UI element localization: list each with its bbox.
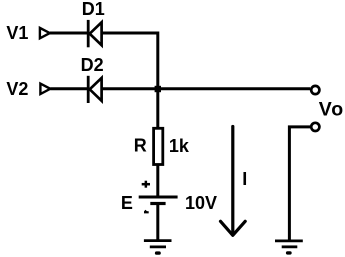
svg-text:E: E <box>121 193 133 213</box>
svg-text:I: I <box>242 169 247 189</box>
wire D2 to output terminal <box>102 87 310 90</box>
output terminal circle bottom <box>311 123 319 131</box>
svg-text:V1: V1 <box>6 23 28 43</box>
output terminal circle top <box>311 86 319 94</box>
wire terminal to right ground <box>289 127 310 241</box>
diode D1 triangle <box>90 22 102 45</box>
svg-text:D2: D2 <box>81 55 104 75</box>
wire D1 to node <box>102 33 158 89</box>
svg-text:1k: 1k <box>169 136 190 156</box>
wire battery to ground <box>156 204 159 241</box>
battery minus mark <box>144 210 149 214</box>
svg-text:10V: 10V <box>185 193 217 213</box>
svg-text:D1: D1 <box>82 0 105 19</box>
wire V2 to D2 <box>50 87 87 90</box>
input terminal V1 <box>40 28 50 38</box>
ground right <box>275 241 303 253</box>
battery E plus sign <box>142 181 150 188</box>
wire V1 to D1 <box>50 32 87 35</box>
svg-text:Vo: Vo <box>319 99 344 121</box>
junction node <box>155 86 161 92</box>
battery E positive plate <box>139 196 178 199</box>
diode D2 cathode bar <box>87 76 90 103</box>
ground center <box>144 241 172 254</box>
svg-text:R: R <box>134 136 147 156</box>
wire resistor to battery <box>156 165 159 198</box>
battery E negative plate <box>150 202 165 205</box>
diode D2 triangle <box>90 78 102 101</box>
wire node to resistor <box>156 89 159 128</box>
diode D1 cathode bar <box>87 20 90 47</box>
svg-text:V2: V2 <box>6 79 28 99</box>
input terminal V2 <box>40 84 50 94</box>
current arrow I <box>221 127 246 236</box>
resistor R body <box>154 128 163 164</box>
